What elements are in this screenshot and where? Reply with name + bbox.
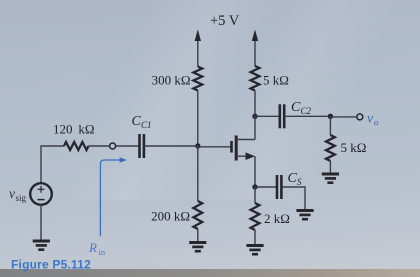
wire RL to ground <box>329 161 331 174</box>
transistor Q1 channel bar <box>235 136 238 161</box>
resistor Rsig 120 kOhm <box>53 122 95 151</box>
svg-text:5 kΩ: 5 kΩ <box>263 73 289 88</box>
wire source node down to RS <box>254 187 256 203</box>
ground under RL <box>322 174 339 183</box>
svg-text:120 kΩ: 120 kΩ <box>53 122 95 137</box>
capacitor CC2 <box>280 100 312 128</box>
svg-text:C: C <box>288 171 298 186</box>
svg-text:Figure P5.112: Figure P5.112 <box>11 258 91 272</box>
node input open terminal <box>110 143 116 149</box>
svg-text:C2: C2 <box>301 106 312 116</box>
ground under 200k <box>189 243 206 252</box>
capacitor CS <box>277 171 302 199</box>
node vo open terminal <box>357 114 363 120</box>
capacitor CC1 <box>132 114 152 158</box>
wire output node down to RL <box>329 116 331 135</box>
wire source down to source node <box>254 156 256 187</box>
wire vsig to ground <box>40 205 42 241</box>
svg-text:200 kΩ: 200 kΩ <box>151 209 190 224</box>
transistor Q1 gate bar <box>230 141 233 153</box>
transistor Q1 drain lead <box>236 139 255 141</box>
supply arrow right (to drain branch) <box>252 30 258 67</box>
resistor RL 5 kOhm <box>326 135 366 161</box>
wire CC1 to gate node <box>144 145 198 147</box>
node drain junction dot <box>252 114 257 119</box>
label vsig <box>9 186 27 203</box>
svg-text:v: v <box>9 186 15 201</box>
svg-text:C: C <box>132 114 142 129</box>
svg-text:R: R <box>88 240 97 255</box>
page glare streak <box>0 0 420 200</box>
ground under vsig <box>33 241 50 250</box>
svg-text:v: v <box>367 111 373 126</box>
wire 120k to input terminal <box>89 145 110 147</box>
svg-text:2 kΩ: 2 kΩ <box>264 211 290 226</box>
wire terminal to CC1 <box>116 145 140 147</box>
wire output node to vo terminal <box>330 116 356 118</box>
resistor RG2 200 kOhm <box>151 201 202 229</box>
svg-text:5 kΩ: 5 kΩ <box>341 140 367 155</box>
label Rin <box>88 240 106 257</box>
label vo <box>367 111 379 128</box>
svg-text:in: in <box>99 247 106 257</box>
wire gate node to MOSFET gate <box>198 146 231 148</box>
svg-text:C: C <box>291 100 301 115</box>
wire drain node down to transistor drain <box>254 116 256 139</box>
svg-text:C1: C1 <box>141 120 152 130</box>
resistor RS 2 kOhm <box>251 203 290 230</box>
svg-text:o: o <box>374 118 379 128</box>
svg-text:+5 V: +5 V <box>210 13 240 29</box>
wire RS to ground <box>254 230 256 246</box>
wire source node to CS <box>255 186 277 188</box>
wire drain node to CC2 <box>255 115 280 117</box>
node source junction dot <box>252 184 257 189</box>
Rin annotation arrow <box>100 157 127 236</box>
wire RD bottom to drain node <box>254 91 256 117</box>
wire 300k bottom to gate node <box>197 91 199 147</box>
wire 200k to ground <box>197 229 199 243</box>
svg-text:sig: sig <box>16 193 27 203</box>
wire CC2 to output node <box>285 115 331 117</box>
resistor RD 5 kOhm <box>251 66 289 91</box>
transistor Q1 source lead with arrow <box>236 152 255 160</box>
wire gate node down to 200k <box>197 146 199 201</box>
node gate junction dot <box>195 143 200 148</box>
resistor RG1 300 kOhm <box>152 67 203 91</box>
ground under RS <box>246 246 263 255</box>
caption Figure P5.112 <box>11 258 91 272</box>
ground under CS <box>296 211 313 220</box>
svg-text:S: S <box>297 177 302 187</box>
wire input top corner <box>41 146 64 184</box>
supply arrow left (to 300k branch) <box>195 30 201 67</box>
page bottom edge shadow <box>0 269 420 277</box>
+5 V supply label <box>210 13 240 29</box>
svg-text:300 kΩ: 300 kΩ <box>152 73 191 88</box>
node output junction dot <box>328 114 333 119</box>
wire CS to its ground <box>282 187 305 211</box>
source vsig circle <box>30 183 52 205</box>
